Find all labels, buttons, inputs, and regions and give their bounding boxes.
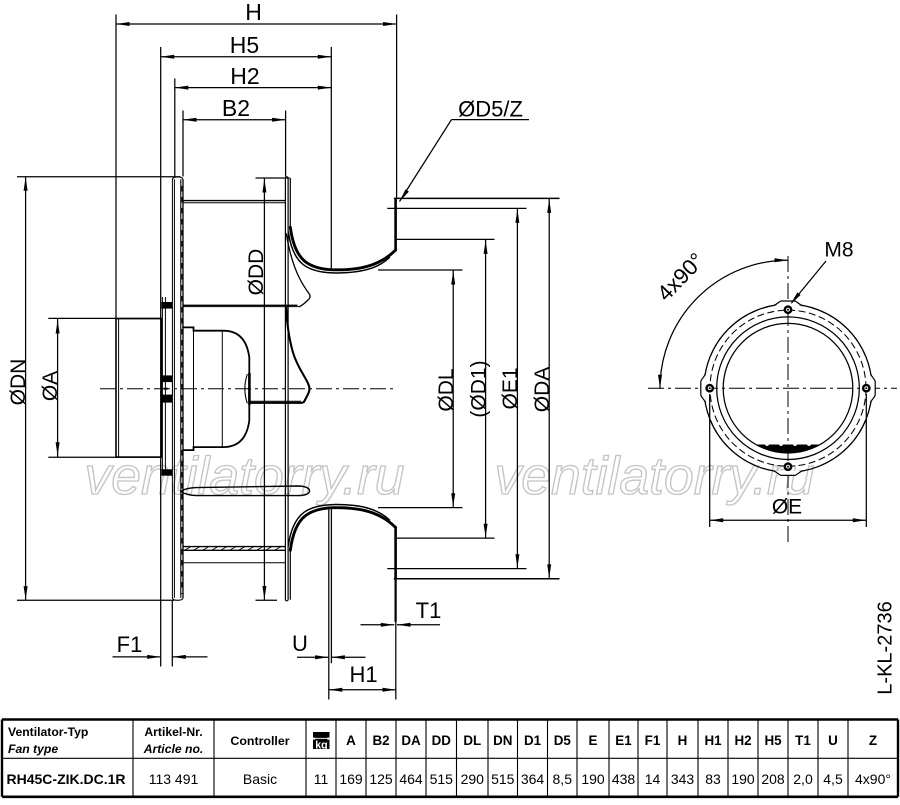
front view inner circle 2 bbox=[723, 323, 853, 453]
svg-text:DD: DD bbox=[432, 733, 452, 748]
svg-text:14: 14 bbox=[645, 771, 661, 787]
blade hatched section bbox=[183, 547, 285, 551]
front view flange outer circle bbox=[704, 304, 872, 472]
kg icon bbox=[312, 732, 331, 751]
svg-text:F1: F1 bbox=[645, 733, 661, 748]
shaft boss bbox=[248, 373, 251, 405]
flange wall lower bbox=[394, 527, 397, 622]
shaft hub clamp bbox=[162, 375, 173, 402]
svg-text:364: 364 bbox=[521, 771, 545, 787]
svg-text:B2: B2 bbox=[372, 733, 389, 748]
svg-text:H5: H5 bbox=[230, 32, 259, 58]
dimension D5/Z label bbox=[400, 97, 530, 202]
svg-text:D5: D5 bbox=[554, 733, 572, 748]
U extension and H1 left extension line bbox=[329, 507, 332, 700]
front view mounting ear bottom bbox=[774, 471, 802, 476]
svg-text:D1: D1 bbox=[524, 733, 542, 748]
svg-text:190: 190 bbox=[731, 771, 755, 787]
mounting bolt lower bbox=[162, 469, 173, 475]
svg-text:F1: F1 bbox=[117, 632, 143, 657]
svg-text:125: 125 bbox=[369, 771, 393, 787]
front view mounting ear right bbox=[871, 374, 876, 402]
dimension D1 bbox=[467, 239, 490, 538]
watermark left bbox=[85, 447, 405, 506]
D1 extension lower bbox=[397, 537, 495, 539]
DL extension upper bbox=[378, 269, 463, 271]
shroud plate upper bbox=[289, 178, 291, 227]
flange wall upper bbox=[394, 198, 397, 251]
H2 H5 right extension line bbox=[330, 47, 332, 270]
front view mounting ear left bbox=[701, 374, 706, 402]
svg-text:ØA: ØA bbox=[39, 371, 62, 401]
svg-text:H1: H1 bbox=[704, 733, 722, 748]
dimension B2 bbox=[183, 95, 286, 177]
table text bbox=[7, 725, 891, 787]
dimension H left extension line bbox=[115, 15, 117, 319]
dimension DA bbox=[531, 198, 554, 578]
svg-text:H: H bbox=[245, 0, 262, 25]
svg-text:8,5: 8,5 bbox=[553, 771, 573, 787]
support plate dish bbox=[172, 177, 183, 600]
drawing number label bbox=[875, 601, 897, 694]
mounting bolt upper bbox=[162, 302, 173, 309]
front view clamp detail dark arc bbox=[756, 442, 821, 453]
svg-text:M8: M8 bbox=[824, 239, 853, 262]
svg-text:B2: B2 bbox=[222, 95, 250, 121]
inlet cone lower inner bbox=[288, 505, 389, 546]
motor mount plate bbox=[162, 297, 165, 476]
front view bolt hole top bbox=[784, 305, 793, 314]
svg-text:515: 515 bbox=[430, 771, 454, 787]
svg-text:343: 343 bbox=[671, 771, 695, 787]
svg-text:DN: DN bbox=[493, 733, 512, 748]
dimension 4x90 arc bbox=[652, 248, 788, 388]
blade ellipse section bbox=[181, 486, 310, 496]
inlet cone upper inner bbox=[288, 232, 389, 273]
front view bolt hole bottom bbox=[784, 462, 793, 471]
svg-text:ventilatorry.ru: ventilatorry.ru bbox=[85, 447, 405, 506]
front view bolt hole left bbox=[705, 384, 714, 393]
M8 label and leader bbox=[791, 239, 854, 305]
svg-text:Ventilator-Typ: Ventilator-Typ bbox=[8, 725, 88, 739]
svg-text:kg: kg bbox=[315, 739, 327, 751]
svg-text:4x90°: 4x90° bbox=[855, 771, 891, 787]
svg-text:ØDN: ØDN bbox=[7, 359, 30, 406]
rotor bell bbox=[250, 307, 309, 403]
front view mounting ear top bbox=[774, 301, 802, 306]
svg-text:(ØD1): (ØD1) bbox=[467, 360, 490, 417]
svg-text:ØDL: ØDL bbox=[435, 368, 458, 411]
table grid bbox=[2, 720, 898, 797]
svg-text:Artikel-Nr.: Artikel-Nr. bbox=[144, 725, 202, 739]
svg-text:515: 515 bbox=[491, 771, 515, 787]
svg-text:H1: H1 bbox=[349, 662, 377, 687]
flange face E1 edge lower bbox=[387, 568, 526, 570]
dimension E bbox=[710, 394, 867, 527]
dimension DL bbox=[435, 270, 458, 508]
dimension H bbox=[116, 0, 397, 26]
svg-text:H2: H2 bbox=[734, 733, 751, 748]
svg-text:464: 464 bbox=[399, 771, 423, 787]
svg-text:H5: H5 bbox=[764, 733, 782, 748]
watermark right bbox=[495, 447, 815, 506]
dimension F1 bbox=[113, 601, 208, 667]
svg-text:ØDD: ØDD bbox=[245, 249, 268, 296]
impeller back plate bbox=[285, 177, 288, 601]
svg-text:ØE1: ØE1 bbox=[499, 367, 522, 409]
dimension T1 bbox=[361, 598, 442, 627]
front view bolt hole right bbox=[862, 384, 871, 393]
upper blade section bbox=[183, 201, 285, 203]
svg-text:83: 83 bbox=[705, 771, 721, 787]
svg-text:H: H bbox=[678, 733, 688, 748]
blade lower edge line bbox=[183, 562, 285, 564]
svg-text:169: 169 bbox=[339, 771, 363, 787]
svg-text:Controller: Controller bbox=[230, 734, 289, 748]
svg-text:ØDA: ØDA bbox=[531, 367, 554, 413]
svg-text:Z: Z bbox=[869, 733, 877, 748]
front view bolt circle dashed bbox=[710, 310, 866, 466]
motor body bbox=[116, 319, 162, 458]
svg-text:U: U bbox=[828, 733, 838, 748]
flange face E1 edge upper bbox=[387, 207, 526, 209]
svg-text:2,0: 2,0 bbox=[793, 771, 813, 787]
svg-text:11: 11 bbox=[314, 771, 329, 787]
svg-text:A: A bbox=[346, 733, 356, 748]
svg-text:ØD5/Z: ØD5/Z bbox=[458, 97, 523, 122]
front view centerlines bbox=[648, 256, 897, 543]
shroud plate lower bbox=[289, 550, 291, 600]
svg-text:DA: DA bbox=[401, 733, 421, 748]
svg-text:U: U bbox=[292, 631, 308, 656]
svg-text:208: 208 bbox=[761, 771, 785, 787]
bearing housing arc bbox=[245, 375, 247, 403]
D1 extension upper bbox=[397, 238, 495, 240]
dimension A bbox=[39, 318, 161, 457]
svg-text:E1: E1 bbox=[615, 733, 632, 748]
svg-text:T1: T1 bbox=[416, 598, 442, 623]
dimension U bbox=[292, 631, 365, 659]
svg-text:T1: T1 bbox=[795, 733, 811, 748]
svg-text:E: E bbox=[589, 733, 598, 748]
svg-text:290: 290 bbox=[461, 771, 485, 787]
motor front housing bbox=[183, 327, 249, 450]
svg-text:Basic: Basic bbox=[243, 771, 277, 787]
svg-text:4,5: 4,5 bbox=[823, 771, 843, 787]
dimension DN bbox=[7, 177, 180, 601]
blade with leading edge bbox=[183, 234, 310, 307]
dimension H5 bbox=[161, 32, 332, 59]
flange DA edge lower bbox=[394, 578, 560, 580]
dimension DD bbox=[245, 178, 290, 600]
H right extension line bbox=[396, 15, 398, 199]
svg-text:190: 190 bbox=[581, 771, 605, 787]
T1 H1 right extension line bbox=[395, 622, 397, 700]
dimension E1 bbox=[499, 208, 522, 568]
centerline main axis bbox=[100, 388, 397, 390]
svg-text:113 491: 113 491 bbox=[149, 771, 199, 787]
dimension H2 bbox=[175, 63, 331, 177]
DL extension lower bbox=[378, 507, 463, 509]
svg-text:DL: DL bbox=[463, 733, 481, 748]
svg-text:H2: H2 bbox=[230, 63, 259, 89]
dimension H1 bbox=[329, 662, 396, 692]
svg-text:RH45C-ZIK.DC.1R: RH45C-ZIK.DC.1R bbox=[7, 771, 126, 787]
svg-text:Article no.: Article no. bbox=[143, 742, 204, 756]
flange DA edge upper bbox=[394, 197, 560, 199]
inlet cone upper outer bbox=[290, 227, 395, 270]
svg-text:438: 438 bbox=[612, 771, 636, 787]
inlet cone lower outer bbox=[290, 508, 395, 551]
svg-text:ØE: ØE bbox=[772, 496, 802, 519]
H5 and F1 extension line bbox=[160, 47, 162, 667]
front view inner circle 1 bbox=[717, 317, 860, 460]
svg-text:Fan type: Fan type bbox=[8, 742, 58, 756]
svg-text:L-KL-2736: L-KL-2736 bbox=[875, 601, 897, 694]
